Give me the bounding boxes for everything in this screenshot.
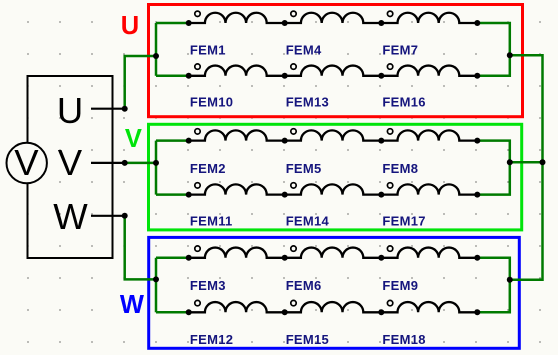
- svg-text:FEM4: FEM4: [286, 43, 322, 58]
- svg-text:FEM8: FEM8: [382, 161, 418, 176]
- svg-text:FEM14: FEM14: [286, 213, 330, 228]
- svg-text:FEM17: FEM17: [382, 213, 425, 228]
- svg-text:FEM1: FEM1: [190, 43, 226, 58]
- svg-text:FEM12: FEM12: [190, 332, 233, 347]
- svg-text:FEM13: FEM13: [286, 94, 329, 109]
- svg-text:FEM2: FEM2: [190, 161, 226, 176]
- svg-text:V: V: [14, 142, 39, 183]
- svg-text:FEM18: FEM18: [382, 332, 425, 347]
- svg-text:FEM11: FEM11: [190, 213, 233, 228]
- svg-text:W: W: [53, 196, 88, 237]
- svg-text:FEM15: FEM15: [286, 332, 329, 347]
- svg-text:V: V: [58, 142, 83, 183]
- svg-text:FEM9: FEM9: [382, 278, 418, 293]
- svg-text:FEM7: FEM7: [382, 43, 418, 58]
- svg-text:FEM3: FEM3: [190, 278, 226, 293]
- svg-text:U: U: [57, 90, 83, 131]
- svg-text:FEM10: FEM10: [190, 94, 233, 109]
- svg-text:FEM16: FEM16: [382, 94, 425, 109]
- svg-text:W: W: [120, 291, 145, 319]
- svg-text:FEM6: FEM6: [286, 278, 322, 293]
- svg-text:V: V: [125, 125, 142, 153]
- svg-text:FEM5: FEM5: [286, 161, 322, 176]
- svg-text:U: U: [121, 12, 139, 40]
